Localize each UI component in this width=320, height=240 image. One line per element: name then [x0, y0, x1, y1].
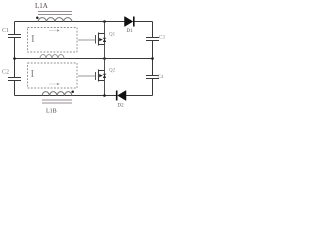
node middle rail / right rail [151, 57, 154, 60]
svg-text:L1B: L1B [46, 109, 57, 115]
wire Q1 source [104, 45, 106, 59]
diode D2 [117, 91, 126, 109]
wire right rail middle segment [152, 41, 154, 76]
transistor Q1 [96, 33, 116, 46]
wire left rail top segment [14, 22, 16, 35]
controller dashed box 1 [28, 28, 78, 53]
wire Q1 drain [104, 22, 106, 34]
node Q1 source / Q2 drain [103, 57, 106, 60]
node left rail / middle rail [13, 57, 16, 60]
wire Q1 gate [78, 39, 96, 41]
capacitor C4 [146, 75, 164, 80]
wire middle rail [15, 58, 153, 60]
wire bottom rail right [126, 95, 153, 97]
svg-text:Q1: Q1 [109, 33, 116, 38]
wire top rail [15, 21, 125, 23]
svg-text:L1A: L1A [35, 2, 48, 10]
wire left rail middle segment [14, 38, 16, 78]
svg-text:I: I [31, 68, 35, 80]
node Q2 source / bottom rail [103, 94, 106, 97]
svg-text:D2: D2 [118, 104, 125, 109]
inductor L1B [42, 91, 74, 115]
wire bottom rail left [15, 95, 118, 97]
controller dashed box 2 [28, 63, 78, 88]
wire Q2 source [104, 81, 106, 96]
wire Q2 drain [104, 59, 106, 71]
capacitor C1 [2, 28, 21, 38]
diode D1 [125, 17, 134, 35]
inductor L1A [35, 2, 72, 22]
svg-text:I: I [31, 33, 35, 45]
node drain Q1 / top rail junction [103, 20, 106, 23]
transistor Q2 [96, 69, 116, 82]
capacitor C3 [146, 36, 165, 41]
wire right rail bottom segment [152, 79, 154, 96]
wire D1 to right rail [135, 21, 153, 23]
svg-text:C3: C3 [159, 36, 165, 41]
wire Q2 gate [78, 75, 96, 77]
svg-text:D1: D1 [127, 29, 134, 34]
svg-text:Q2: Q2 [109, 69, 116, 74]
svg-text:C4: C4 [158, 75, 164, 80]
svg-text:C2: C2 [2, 70, 9, 76]
wire left rail bottom segment [14, 81, 16, 96]
inductor middle coil [40, 55, 64, 59]
capacitor C2 [2, 70, 21, 81]
svg-text:C1: C1 [2, 28, 9, 34]
wire right rail top segment [152, 22, 154, 38]
